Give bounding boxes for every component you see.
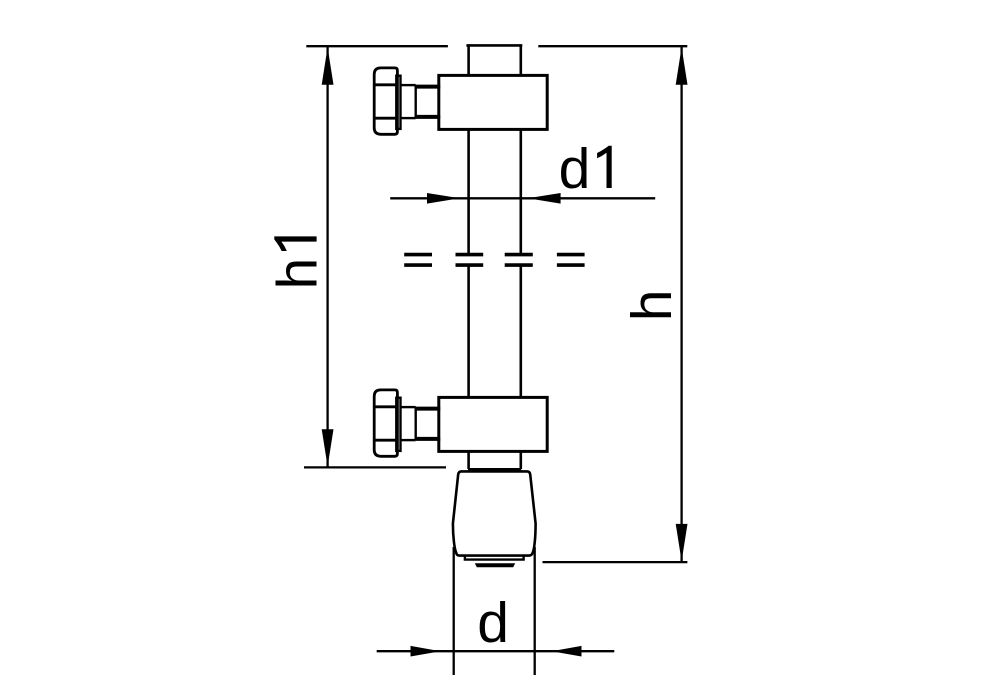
h1 dimension line: [326, 46, 328, 467]
d1 left arrow: [427, 193, 460, 204]
break mark far right: [557, 255, 585, 266]
svg-text:d: d: [559, 137, 591, 201]
h dimension line: [680, 46, 682, 562]
h1 bottom extension line: [304, 466, 446, 468]
break mark on left rod line: [456, 255, 484, 266]
svg-text:h: h: [620, 289, 684, 321]
label h (rotated): [620, 289, 684, 321]
lower threaded section: [416, 409, 441, 439]
d left extension line: [453, 547, 455, 675]
d1 right arrow: [528, 193, 561, 204]
rod top cap: [466, 45, 522, 75]
lower clamp block: [439, 397, 547, 451]
svg-text:h: h: [266, 258, 330, 290]
upper knob (bolt head): [374, 68, 397, 134]
h1 top arrow: [322, 47, 334, 85]
svg-text:d: d: [477, 591, 509, 655]
d right extension line: [534, 547, 536, 675]
label d1: [559, 137, 612, 201]
barrel (tapered grip body): [453, 471, 536, 555]
upper clamp block: [439, 75, 547, 129]
collar thick line at barrel top: [468, 468, 521, 471]
lower knob (bolt head): [374, 390, 397, 456]
h1 bottom arrow: [322, 429, 334, 466]
rod stub below lower block: [469, 451, 521, 469]
barrel bottom lip: [465, 557, 524, 560]
lower shaft neck: [401, 407, 416, 440]
h bottom extension line: [543, 561, 688, 563]
break mark on right rod line: [505, 255, 533, 266]
d left arrow: [411, 646, 441, 657]
upper shaft neck: [401, 85, 416, 118]
top extension line left segment: [306, 45, 448, 47]
lower knob flange washer: [396, 398, 400, 451]
d1 dimension line: [390, 197, 655, 199]
label h1 (rotated): [266, 236, 330, 289]
d right arrow: [552, 646, 582, 657]
upper threaded section: [416, 87, 441, 117]
rod upper segment: [469, 129, 521, 253]
h top arrow: [676, 47, 688, 85]
rod lower segment: [469, 267, 521, 398]
upper knob flange washer: [396, 76, 400, 129]
break mark far left: [404, 255, 432, 266]
top extension line right segment: [538, 45, 687, 47]
d dimension line: [377, 650, 615, 652]
foot pad: [475, 563, 515, 567]
h bottom arrow: [676, 524, 688, 561]
